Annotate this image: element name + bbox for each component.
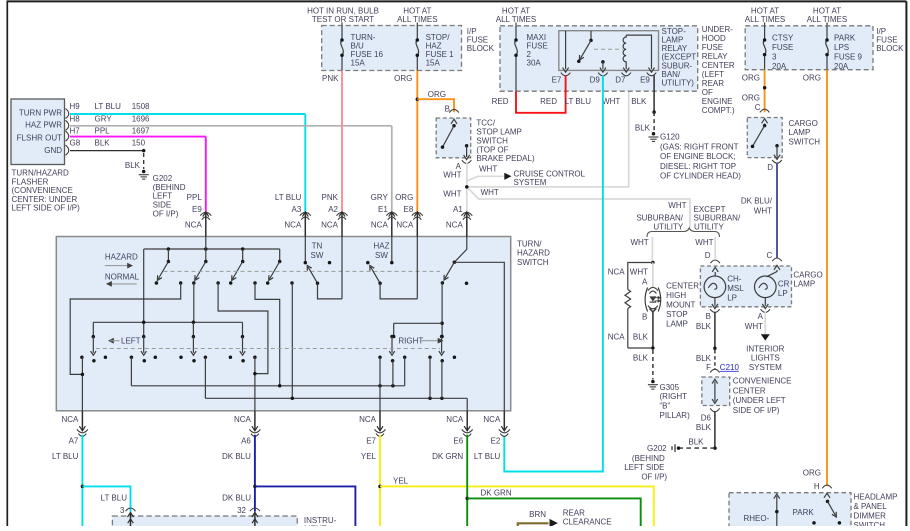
svg-text:DIMMER: DIMMER [854, 511, 887, 520]
svg-text:LAMP: LAMP [793, 280, 815, 289]
svg-text:G120: G120 [660, 133, 680, 142]
svg-text:WHT: WHT [443, 171, 461, 180]
svg-text:OF: OF [702, 88, 713, 97]
svg-text:TURN/HAZARD: TURN/HAZARD [12, 169, 70, 178]
svg-text:G305: G305 [660, 383, 680, 392]
svg-text:CENTER: CENTER [733, 386, 766, 395]
svg-text:STOP: STOP [666, 310, 688, 319]
svg-text:FLASHER: FLASHER [12, 177, 49, 186]
svg-text:A3: A3 [292, 205, 302, 214]
svg-text:15A: 15A [426, 58, 441, 67]
svg-text:GRY: GRY [371, 193, 389, 202]
svg-text:PARK: PARK [793, 508, 815, 517]
svg-text:F: F [706, 363, 711, 372]
svg-text:REAR: REAR [563, 509, 585, 518]
svg-text:NCA: NCA [359, 415, 377, 424]
svg-text:“B”: “B” [660, 402, 671, 411]
svg-text:SW: SW [375, 251, 388, 260]
svg-text:A6: A6 [241, 437, 251, 446]
svg-text:BLK: BLK [696, 354, 712, 363]
svg-text:WHT: WHT [668, 201, 686, 210]
svg-text:150: 150 [132, 138, 146, 147]
svg-text:E1: E1 [378, 205, 388, 214]
svg-text:PNK: PNK [322, 74, 339, 83]
svg-text:UTILITY: UTILITY [694, 223, 724, 232]
svg-text:1697: 1697 [132, 126, 150, 135]
svg-text:G8: G8 [70, 138, 81, 147]
svg-text:SYSTEM: SYSTEM [749, 363, 782, 372]
svg-text:C210: C210 [720, 363, 740, 372]
svg-text:15A: 15A [351, 58, 366, 67]
svg-text:WHT: WHT [479, 165, 497, 174]
svg-text:SW: SW [311, 251, 324, 260]
svg-text:LT BLU: LT BLU [101, 493, 128, 502]
svg-text:BLOCK: BLOCK [467, 44, 495, 53]
svg-text:NCA: NCA [284, 220, 302, 229]
svg-text:CENTER: CENTER [666, 282, 699, 291]
svg-text:A1: A1 [453, 205, 463, 214]
svg-text:SIDE OF I/P): SIDE OF I/P) [733, 406, 780, 415]
svg-text:HAZ PWR: HAZ PWR [25, 121, 62, 130]
svg-text:E6: E6 [453, 437, 463, 446]
svg-text:20A: 20A [772, 62, 787, 71]
svg-text:(BEHIND: (BEHIND [153, 183, 186, 192]
svg-text:STOP LAMP: STOP LAMP [476, 127, 522, 136]
svg-text:BLK: BLK [696, 322, 712, 331]
svg-text:DK BLU: DK BLU [222, 493, 251, 502]
svg-text:WHT: WHT [481, 188, 499, 197]
svg-text:E2: E2 [491, 437, 501, 446]
svg-text:(GAS: RIGHT FRONT: (GAS: RIGHT FRONT [660, 143, 739, 152]
svg-text:BLK: BLK [125, 161, 141, 170]
svg-text:GRY: GRY [95, 114, 113, 123]
svg-text:SUBURBAN/: SUBURBAN/ [694, 214, 741, 223]
svg-text:ORG: ORG [742, 73, 760, 82]
svg-text:ORG: ORG [803, 469, 821, 478]
svg-text:DK BLU: DK BLU [222, 452, 251, 461]
svg-text:BLK: BLK [633, 353, 649, 362]
svg-text:WHT: WHT [602, 97, 620, 106]
svg-text:NCA: NCA [321, 220, 339, 229]
svg-text:CARGO: CARGO [793, 270, 822, 279]
svg-text:LEFT: LEFT [121, 337, 141, 346]
svg-text:DK GRN: DK GRN [481, 489, 512, 498]
svg-text:LAMP: LAMP [666, 320, 688, 329]
svg-text:CENTER: CENTER [702, 61, 735, 70]
svg-text:CH-: CH- [727, 275, 742, 284]
svg-text:H: H [814, 482, 820, 491]
svg-text:WHT: WHT [754, 206, 772, 215]
svg-text:H8: H8 [70, 114, 81, 123]
svg-text:WHT: WHT [443, 190, 461, 199]
svg-text:LT BLU: LT BLU [565, 97, 592, 106]
svg-text:MOUNT: MOUNT [666, 301, 695, 310]
svg-text:CLEARANCE: CLEARANCE [563, 518, 612, 526]
svg-text:PARK: PARK [834, 34, 856, 43]
svg-text:HEADLAMP: HEADLAMP [854, 492, 898, 501]
svg-text:(UNDER LEFT: (UNDER LEFT [733, 396, 786, 405]
svg-text:E7: E7 [366, 437, 376, 446]
svg-text:MSL: MSL [727, 284, 744, 293]
svg-text:C: C [767, 251, 773, 260]
svg-text:FUSE 9: FUSE 9 [834, 53, 863, 62]
svg-text:LAMP: LAMP [789, 128, 811, 137]
svg-text:TN: TN [312, 241, 323, 250]
svg-text:A: A [758, 312, 764, 321]
svg-text:PPL: PPL [95, 126, 111, 135]
svg-text:D9: D9 [590, 75, 601, 84]
svg-text:G202: G202 [153, 174, 173, 183]
svg-text:D: D [705, 251, 711, 260]
svg-text:INTERIOR: INTERIOR [746, 344, 784, 353]
svg-text:LPS: LPS [834, 43, 849, 52]
svg-text:E8: E8 [404, 205, 414, 214]
svg-text:WHT: WHT [630, 268, 648, 277]
svg-text:LP: LP [778, 289, 788, 298]
svg-text:CR: CR [778, 279, 790, 288]
svg-text:1696: 1696 [132, 114, 150, 123]
svg-text:D7: D7 [615, 75, 626, 84]
svg-text:NCA: NCA [371, 220, 389, 229]
svg-text:30A: 30A [527, 58, 542, 67]
svg-text:D: D [767, 163, 773, 172]
svg-text:1508: 1508 [132, 102, 150, 111]
svg-text:BRAKE PEDAL): BRAKE PEDAL) [476, 154, 535, 163]
svg-text:PILLAR): PILLAR) [660, 411, 691, 420]
svg-text:NCA: NCA [396, 220, 414, 229]
svg-text:BLK: BLK [95, 138, 111, 147]
svg-text:E9: E9 [192, 205, 202, 214]
svg-text:(TOP OF: (TOP OF [476, 145, 508, 154]
svg-text:TURN/: TURN/ [517, 239, 542, 248]
svg-text:WHT: WHT [630, 238, 648, 247]
svg-text:RELAY: RELAY [702, 52, 728, 61]
svg-text:ORG: ORG [395, 193, 413, 202]
svg-text:BLOCK: BLOCK [876, 44, 904, 53]
svg-text:LIGHTS: LIGHTS [751, 354, 780, 363]
svg-text:CRUISE CONTROL: CRUISE CONTROL [514, 169, 586, 178]
svg-text:FLSHR OUT: FLSHR OUT [17, 134, 62, 143]
svg-text:E9: E9 [640, 75, 650, 84]
svg-text:PNK: PNK [322, 193, 339, 202]
svg-text:COMPT.): COMPT.) [702, 106, 735, 115]
svg-text:RED: RED [540, 97, 557, 106]
svg-text:RED: RED [492, 97, 509, 106]
svg-text:32: 32 [237, 506, 246, 515]
svg-text:H7: H7 [70, 126, 81, 135]
svg-text:WHT: WHT [745, 322, 763, 331]
svg-text:OF I/P): OF I/P) [641, 472, 667, 481]
svg-text:A: A [642, 278, 648, 287]
svg-text:REAR: REAR [702, 79, 724, 88]
svg-text:WHT: WHT [695, 238, 713, 247]
svg-text:NCA: NCA [234, 415, 252, 424]
svg-text:OF I/P): OF I/P) [153, 209, 179, 218]
svg-text:DK BLU/: DK BLU/ [741, 197, 773, 206]
svg-text:3: 3 [120, 506, 125, 515]
svg-text:UNDER-: UNDER- [702, 25, 733, 34]
svg-text:D6: D6 [701, 413, 712, 422]
svg-text:RHEO-: RHEO- [744, 514, 770, 523]
svg-text:GND: GND [44, 146, 62, 155]
svg-text:NCA: NCA [608, 268, 626, 277]
svg-text:TURN PWR: TURN PWR [19, 109, 62, 118]
svg-text:SWITCH: SWITCH [476, 136, 508, 145]
svg-text:ORG: ORG [394, 74, 412, 83]
svg-text:TEST OR START: TEST OR START [312, 15, 374, 24]
svg-text:BLK: BLK [631, 97, 647, 106]
svg-text:CARGO: CARGO [789, 119, 818, 128]
svg-text:SIDE: SIDE [153, 201, 172, 210]
svg-text:LEFT SIDE: LEFT SIDE [624, 463, 664, 472]
svg-text:NCA: NCA [446, 220, 464, 229]
svg-text:A7: A7 [69, 437, 79, 446]
svg-text:SWITCH: SWITCH [854, 521, 886, 526]
svg-text:B: B [642, 313, 647, 322]
svg-text:(RIGHT: (RIGHT [660, 392, 688, 401]
svg-text:BLK: BLK [633, 333, 649, 342]
svg-text:HOOD: HOOD [702, 34, 726, 43]
svg-text:3: 3 [772, 53, 777, 62]
svg-text:LT BLU: LT BLU [52, 452, 79, 461]
svg-text:DIESEL: RIGHT TOP: DIESEL: RIGHT TOP [660, 162, 736, 171]
svg-text:E7: E7 [552, 75, 562, 84]
svg-text:NCA: NCA [446, 415, 464, 424]
svg-text:BLK: BLK [696, 423, 712, 432]
svg-text:HAZARD: HAZARD [517, 249, 550, 258]
svg-text:20A: 20A [834, 62, 849, 71]
svg-text:BRN: BRN [529, 510, 546, 519]
svg-text:CTSY: CTSY [772, 34, 794, 43]
svg-text:LT BLU: LT BLU [474, 452, 501, 461]
svg-text:OF CYLINDER HEAD): OF CYLINDER HEAD) [660, 172, 741, 181]
svg-text:SYSTEM: SYSTEM [514, 178, 547, 187]
svg-text:HAZ: HAZ [374, 241, 390, 250]
svg-text:G202: G202 [647, 444, 667, 453]
svg-text:ORG: ORG [742, 93, 760, 102]
svg-text:LP: LP [727, 294, 737, 303]
svg-text:ORG: ORG [803, 73, 821, 82]
svg-text:A2: A2 [328, 205, 338, 214]
svg-text:& PANEL: & PANEL [854, 502, 888, 511]
svg-text:LEFT: LEFT [153, 192, 173, 201]
svg-text:H9: H9 [70, 102, 81, 111]
svg-text:CENTER: UNDER: CENTER: UNDER [12, 195, 78, 204]
svg-text:C: C [755, 103, 761, 112]
svg-text:YEL: YEL [393, 477, 409, 486]
svg-text:LT BLU: LT BLU [95, 102, 122, 111]
svg-text:(BEHIND: (BEHIND [632, 454, 665, 463]
svg-text:FUSE: FUSE [702, 43, 723, 52]
svg-text:NORMAL: NORMAL [105, 272, 140, 281]
svg-text:(LEFT: (LEFT [702, 70, 724, 79]
svg-text:DK GRN: DK GRN [432, 452, 463, 461]
svg-text:NCA: NCA [185, 220, 203, 229]
svg-text:FUSE: FUSE [772, 43, 793, 52]
svg-text:LEFT SIDE OF I/P): LEFT SIDE OF I/P) [12, 204, 81, 213]
svg-text:OF ENGINE BLOCK;: OF ENGINE BLOCK; [660, 152, 736, 161]
svg-text:ENGINE: ENGINE [702, 97, 733, 106]
svg-text:(CONVENIENCE: (CONVENIENCE [12, 186, 73, 195]
svg-text:NCA: NCA [62, 415, 80, 424]
svg-text:NCA: NCA [483, 415, 501, 424]
svg-text:UTILITY): UTILITY) [662, 79, 695, 88]
svg-text:NCA: NCA [608, 333, 626, 342]
svg-text:SWITCH: SWITCH [789, 138, 821, 147]
svg-text:SUBURBAN/: SUBURBAN/ [636, 214, 683, 223]
svg-text:ORG: ORG [428, 90, 446, 99]
svg-text:CONVENIENCE: CONVENIENCE [733, 377, 792, 386]
svg-text:HIGH: HIGH [666, 291, 686, 300]
svg-text:HAZARD: HAZARD [105, 253, 138, 262]
svg-text:YEL: YEL [361, 452, 377, 461]
svg-text:BLK: BLK [688, 438, 704, 447]
svg-text:BLK: BLK [635, 123, 651, 132]
svg-text:LT BLU: LT BLU [275, 193, 302, 202]
svg-text:TCC/: TCC/ [476, 118, 495, 127]
svg-text:SWITCH: SWITCH [517, 258, 549, 267]
svg-text:RIGHT: RIGHT [398, 337, 423, 346]
svg-text:UTILITY: UTILITY [653, 223, 683, 232]
svg-text:PPL: PPL [187, 193, 203, 202]
svg-text:B: B [706, 312, 711, 321]
